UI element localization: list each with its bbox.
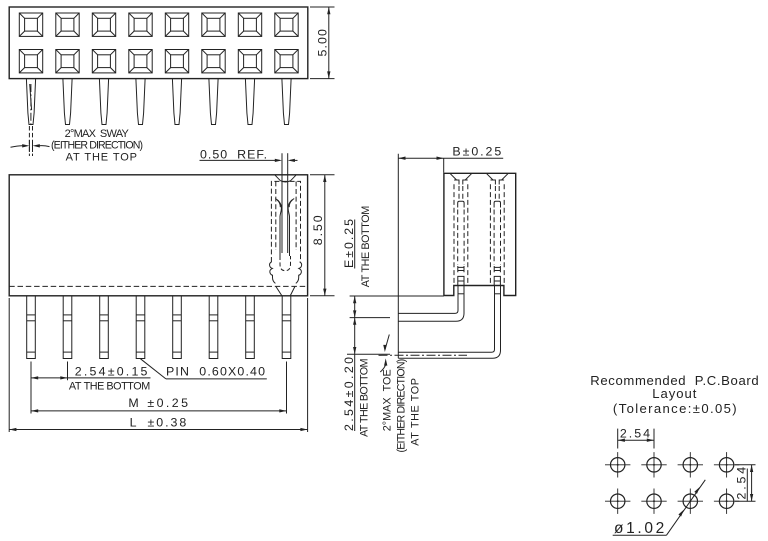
svg-text:2.54: 2.54 <box>620 427 652 441</box>
drill hole row1 col4 <box>714 452 739 477</box>
drill hole row2 col3 <box>678 489 703 514</box>
socket contact inner hook lines <box>277 200 293 207</box>
dimension 5.00 extension lines <box>310 6 335 8</box>
svg-text:(EITHER DIRECTION): (EITHER DIRECTION) <box>396 359 408 452</box>
toe arrows <box>383 345 386 352</box>
dimension L ±0.38 extension lines <box>8 298 10 432</box>
dimension 8.50 extension lines <box>310 174 335 176</box>
extension line front pin centerline <box>350 317 390 319</box>
svg-text:(EITHER DIRECTION): (EITHER DIRECTION) <box>51 139 142 151</box>
housing bottom wall hidden line (dashed) <box>9 285 307 287</box>
svg-text:±0.38: ±0.38 <box>148 415 189 429</box>
side view pin entry funnel back row <box>486 173 508 180</box>
contact socket position row2 col7 <box>238 50 261 73</box>
svg-text:5.00: 5.00 <box>316 28 330 57</box>
contact socket position row1 col8 <box>275 13 298 36</box>
hidden contact cavity lines back row (dashed) <box>490 184 504 285</box>
contact hook tops back row <box>491 180 505 185</box>
hole diameter leader <box>613 534 667 536</box>
contact socket position row2 col8 <box>275 50 298 73</box>
svg-text:0.50 REF.: 0.50 REF. <box>200 147 268 161</box>
contact retention arch front row <box>458 201 464 207</box>
pin size callout leader <box>141 359 166 379</box>
svg-text:PIN 0.60X0.40: PIN 0.60X0.40 <box>166 365 266 379</box>
svg-text:2°MAX TOE: 2°MAX TOE <box>381 369 393 431</box>
dimension M ±0.25 extension line right <box>286 362 288 414</box>
svg-text:AT THE TOP: AT THE TOP <box>66 152 138 164</box>
dimension 2.54 vertical line and arrows <box>751 465 753 501</box>
pin entry funnel (top, position 8) <box>275 175 297 182</box>
dimension B±0.25 line, arrows, leader <box>398 157 503 159</box>
contact socket position row2 col3 <box>92 50 115 73</box>
socket contact spring arms <box>275 199 281 256</box>
svg-text:(Tolerance:±0.05): (Tolerance:±0.05) <box>613 401 738 416</box>
contact cavity hidden outline (dashed) <box>271 181 300 262</box>
svg-text:Layout: Layout <box>652 386 697 401</box>
contact socket position row2 col1 <box>19 50 42 73</box>
contact socket position row1 col5 <box>165 13 188 36</box>
sway dimension leader left <box>11 146 24 148</box>
svg-text:2°MAX SWAY: 2°MAX SWAY <box>65 128 130 140</box>
pin 1 centerline (dash-dot) <box>30 84 32 127</box>
dimension E±0.25 text and underline <box>354 220 356 269</box>
dimension B±0.25 common extension line at pin tips <box>397 154 399 359</box>
top view contact tail pin 7 <box>245 79 254 125</box>
svg-text:B±0.25: B±0.25 <box>452 145 503 159</box>
top view contact tail pin 2 <box>63 79 72 125</box>
dimension 8.50 line and arrows <box>324 175 326 296</box>
svg-text:L: L <box>130 415 137 429</box>
contact crimp ladder front row <box>458 266 464 272</box>
front view tail pin 2 <box>63 296 72 359</box>
contact socket position row1 col2 <box>56 13 79 36</box>
contact crimp ladder back row <box>494 266 500 272</box>
front view tail pin 6 <box>209 296 218 359</box>
side view housing body with standoff feet <box>444 173 516 295</box>
svg-text:8.50: 8.50 <box>311 213 325 245</box>
extension line back pin centerline <box>347 353 390 355</box>
drill hole row1 col3 <box>678 452 703 477</box>
dimension 5.00 line and arrows <box>328 7 330 79</box>
svg-text:ø1.02: ø1.02 <box>614 520 667 537</box>
contact socket position row1 col4 <box>129 13 152 36</box>
contact U-bend hidden (dashed) <box>280 256 291 271</box>
sway envelope solid segments at arrows <box>28 140 30 152</box>
front view tail pin 7 <box>246 296 255 359</box>
socket contact shell left <box>270 262 276 284</box>
svg-text:AT THE BOTTOM: AT THE BOTTOM <box>358 358 370 436</box>
svg-text:E±0.25: E±0.25 <box>342 217 356 268</box>
pin 1 tilted sway outline <box>30 84 32 110</box>
dimension 2.54 horizontal extension lines <box>617 429 619 449</box>
dimension 2.54 vertical underline <box>746 469 748 502</box>
back row pin centerline (dash-dot) <box>379 354 468 356</box>
contact tail exit back row <box>494 276 500 285</box>
tail tick below housing front row <box>458 293 464 295</box>
dimension B±0.25 extension line at housing face <box>443 158 445 172</box>
drill hole row1 col2 <box>641 452 666 477</box>
contact socket position row1 col1 <box>19 13 42 36</box>
svg-text:AT THE TOP: AT THE TOP <box>410 378 422 446</box>
dimension M ±0.25 line and arrows <box>31 410 287 412</box>
drill hole row1 col1 <box>605 452 630 477</box>
mating pin through position 8 <box>281 153 283 253</box>
top view contact tail pin 6 <box>209 79 218 125</box>
top view contact tail pin 1 <box>26 79 35 125</box>
svg-text:±0.25: ±0.25 <box>147 396 190 410</box>
dimension 2.54±0.20 text and underline <box>354 354 356 431</box>
drill hole row2 col4 <box>714 489 739 514</box>
contact tail exit front row <box>458 276 464 285</box>
svg-text:M: M <box>128 396 138 410</box>
contact socket position row2 col5 <box>165 50 188 73</box>
top view contact tail pin 5 <box>172 79 181 125</box>
dimension 2.54 vertical extension lines <box>735 464 756 466</box>
svg-text:2.54: 2.54 <box>735 464 749 500</box>
socket contact shell right <box>296 262 302 284</box>
front view housing body <box>9 175 307 296</box>
tail tick below housing back row <box>494 293 500 295</box>
contact socket position row1 col3 <box>92 13 115 36</box>
stacked dimension line E and 2.54 with arrows <box>354 296 356 354</box>
bent pin back row (lower) <box>398 286 494 353</box>
drill hole row2 col1 <box>605 489 630 514</box>
contact socket position row1 col6 <box>202 13 225 36</box>
front view tail pin 8 <box>282 296 291 359</box>
dimension 2.54 horizontal line and arrows <box>618 439 654 441</box>
svg-text:2.54±0.15: 2.54±0.15 <box>75 365 150 379</box>
hidden contact cavity lines front row (dashed) <box>454 184 468 285</box>
svg-text:2.54±0.20: 2.54±0.20 <box>342 355 356 431</box>
contact hook tops front row <box>454 180 468 185</box>
contact socket position row2 col4 <box>129 50 152 73</box>
2 deg toe angle reference line <box>385 335 389 350</box>
front view tail pin 5 <box>173 296 182 359</box>
top view housing body <box>9 7 308 79</box>
pin 1 sway envelope dashed lines <box>28 126 30 156</box>
side view pin entry funnel front row <box>450 173 472 180</box>
dimension L ±0.38 line and arrows <box>9 429 307 431</box>
contact socket position row1 col7 <box>238 13 261 36</box>
svg-text:AT THE BOTTOM: AT THE BOTTOM <box>360 206 372 287</box>
svg-text:AT THE BOTTOM: AT THE BOTTOM <box>69 381 150 393</box>
top view contact tail pin 3 <box>99 79 108 125</box>
top view contact tail pin 8 <box>282 79 291 125</box>
bent pin front row (upper) <box>398 286 458 314</box>
dimension 2.54±0.15 extension lines <box>30 362 32 414</box>
front view tail pin 1 <box>27 296 36 359</box>
contact socket position row2 col6 <box>202 50 225 73</box>
contact cavity inner hidden lines (dashed) <box>275 181 277 250</box>
front view tail pin 4 <box>136 296 145 359</box>
dimension 2.54±0.15 line, arrows, leader <box>31 377 151 379</box>
toe leader tail <box>380 365 386 372</box>
extension line housing bottom (for E) <box>350 295 444 297</box>
drill hole row2 col2 <box>641 489 666 514</box>
top view contact tail pin 4 <box>136 79 145 125</box>
sway dimension leader right <box>39 145 50 148</box>
contact retention arch back row <box>494 201 500 207</box>
front view tail pin 3 <box>100 296 109 359</box>
contact tail exit funnel (bottom) <box>276 287 295 296</box>
contact socket position row2 col2 <box>56 50 79 73</box>
